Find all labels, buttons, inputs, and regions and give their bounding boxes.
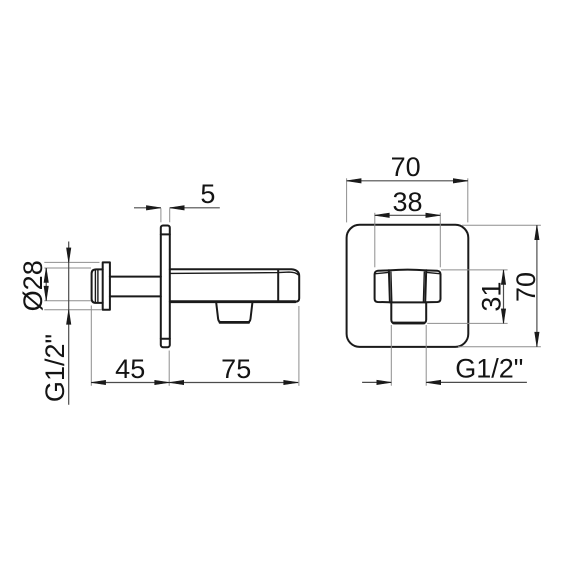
dim 45/75: extension lines	[91, 306, 299, 386]
dim 70 top: dimension line	[347, 180, 468, 182]
side view: threaded nut cap	[92, 269, 103, 303]
front view: spout right block	[426, 270, 440, 302]
dim 70 top: extension lines	[347, 178, 468, 222]
svg-text:31: 31	[476, 282, 506, 312]
dim Ø28: extension lines	[44, 262, 101, 309]
front view: outlet square	[391, 303, 426, 324]
dim Ø28: arrows outer	[67, 248, 71, 324]
dim G1/2 right: arrows	[377, 380, 441, 384]
dim 31: arrows	[501, 270, 505, 324]
dim 31: extension lines	[427, 270, 507, 324]
dim 31: dimension line	[503, 270, 505, 324]
dim 70 right: extension lines	[458, 225, 541, 347]
svg-text:75: 75	[221, 354, 251, 384]
svg-text:Ø28: Ø28	[18, 260, 48, 311]
dim 38: extension lines	[375, 213, 441, 267]
dim Ø28: dimension line outer	[68, 242, 70, 405]
svg-text:G1/2": G1/2"	[40, 334, 70, 402]
dim 70 right: arrows	[535, 225, 539, 347]
dim 45/75: dimension line	[91, 382, 298, 384]
dim G1/2 thread: dimension line inner	[45, 268, 47, 301]
svg-text:38: 38	[392, 187, 422, 217]
dim 5: extension lines	[161, 208, 170, 222]
dim G1/2 thread: arrows inner	[44, 268, 48, 301]
svg-text:G1/2": G1/2"	[455, 354, 523, 384]
side view: flange collar	[103, 262, 110, 309]
svg-text:5: 5	[200, 179, 215, 209]
dim 70 right: dimension line	[536, 225, 538, 347]
dim G1/2 right: dimension line	[362, 381, 527, 383]
side view: outlet stub	[216, 302, 252, 323]
dim 38: arrows	[375, 213, 441, 217]
side view: pipe	[110, 277, 161, 297]
dim 5: dimension line	[134, 207, 220, 209]
dim 38: dimension line	[375, 214, 441, 216]
svg-text:70: 70	[511, 272, 541, 302]
dim 70 top: arrows	[347, 179, 468, 183]
side view: wall plate	[161, 226, 170, 348]
front view: spout center section	[389, 270, 426, 303]
front view: mounting plate (rounded square)	[347, 225, 469, 347]
dim G1/2 right: extension lines	[391, 325, 426, 386]
svg-text:45: 45	[115, 354, 145, 384]
dim 5: arrows	[146, 206, 184, 210]
dim 45/75: arrows	[91, 380, 298, 384]
side view: spout body	[170, 269, 299, 301]
svg-text:70: 70	[391, 152, 421, 182]
front view: spout left block	[375, 270, 389, 302]
